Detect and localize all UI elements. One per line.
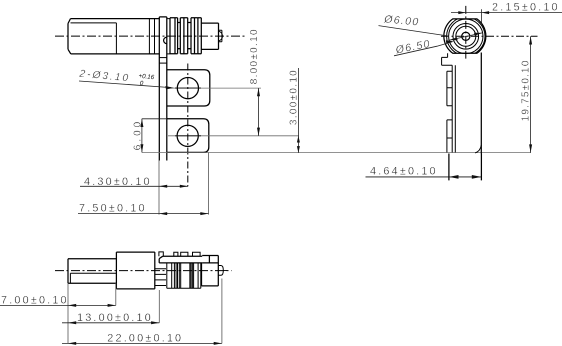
label 2-diam3.10 text bbox=[78, 67, 155, 88]
end view body right edge bbox=[480, 53, 482, 154]
dim 3.00 line bbox=[297, 68, 299, 153]
bottom view plate band bbox=[159, 256, 202, 263]
plate band tooth 1 bbox=[159, 252, 163, 256]
plate band tooth 2 bbox=[174, 252, 178, 256]
dim 7.50 line bbox=[78, 213, 209, 215]
end view center pin bbox=[462, 32, 470, 40]
dim 6.00 arrows bbox=[140, 119, 143, 153]
dim 2.15 right extension bbox=[481, 9, 483, 24]
dim 22.00 line bbox=[62, 342, 222, 344]
plate center arc bbox=[164, 37, 167, 43]
hole 2 bbox=[177, 125, 198, 146]
holes vertical centerline bbox=[187, 64, 189, 187]
plate band tooth 3 bbox=[181, 252, 188, 256]
dim 13.00 arrows bbox=[68, 321, 159, 324]
svg-text:2.15±0.10: 2.15±0.10 bbox=[492, 1, 560, 13]
hole 1 crosshair dark segment bbox=[175, 87, 201, 89]
svg-text:0: 0 bbox=[139, 80, 144, 87]
dim 19.75 arrows bbox=[529, 36, 532, 152]
ring gap 2 bbox=[188, 23, 191, 49]
extension line left (x=68) bbox=[67, 283, 69, 343]
mounting tab 1 bbox=[167, 70, 210, 106]
svg-text:Ø6.00: Ø6.00 bbox=[383, 13, 420, 28]
ring R1 bbox=[170, 18, 178, 54]
svg-text:Ø6.50: Ø6.50 bbox=[394, 38, 432, 57]
bottom view left cylinder inner bbox=[70, 273, 116, 283]
hole 2 horizontal centerline / extension bbox=[168, 135, 299, 137]
rear tip bbox=[219, 30, 223, 42]
dim 19.75 line bbox=[530, 36, 532, 152]
bottom view fins bottom edge bbox=[167, 287, 201, 289]
bottom view right block bbox=[202, 256, 219, 286]
rear barrel bbox=[201, 23, 218, 49]
svg-text:7.00±0.10: 7.00±0.10 bbox=[1, 295, 69, 307]
bottom view big block bbox=[116, 252, 154, 289]
plate rung A bbox=[159, 57, 167, 59]
svg-text:8.00±0.10: 8.00±0.10 bbox=[249, 28, 260, 84]
svg-text:22.00±0.10: 22.00±0.10 bbox=[107, 333, 183, 345]
label 2-diam3.10 leader bbox=[79, 81, 171, 88]
ring R2 bbox=[180, 18, 187, 54]
flange plate edge-on bbox=[159, 17, 167, 161]
label diam 6.00 bbox=[383, 13, 420, 28]
bottom view left cylinder bbox=[68, 259, 116, 283]
plate band tooth 4 bbox=[193, 252, 201, 256]
end view vertical centerline bbox=[465, 6, 467, 59]
end view fillet arc bbox=[475, 145, 481, 153]
plate bottom long extension line bbox=[142, 152, 531, 154]
dim 7.50 arrows bbox=[159, 212, 209, 215]
side view centerline bbox=[55, 35, 247, 37]
dim 4.30 line bbox=[80, 185, 188, 187]
end view body left step bbox=[442, 53, 453, 65]
bottom view fins bbox=[167, 263, 201, 288]
end view bottom barrel bbox=[449, 154, 482, 181]
extension line 13.00 right bbox=[158, 290, 160, 323]
dim 8.00 line bbox=[258, 88, 260, 136]
dim 22.00 arrows bbox=[68, 342, 222, 345]
dim 4.64 arrows bbox=[449, 175, 482, 179]
dim 6.00 line bbox=[142, 119, 167, 153]
end view ear bump 2 bbox=[447, 120, 452, 152]
extension line tab right edge (x=208.5) bbox=[208, 152, 210, 214]
bottom view fins thick pair bbox=[190, 263, 192, 288]
ring section neck bbox=[167, 19, 170, 54]
dim 8.00 arrows bbox=[257, 88, 260, 136]
plate rung B bbox=[159, 62, 167, 64]
end view circle d6.0 bbox=[449, 19, 483, 53]
ring gap 1 bbox=[178, 23, 181, 49]
svg-text:7.50±0.10: 7.50±0.10 bbox=[79, 202, 147, 214]
end view circle inner1 bbox=[453, 24, 479, 50]
extension line 22.00 right bbox=[221, 279, 223, 344]
side view body outline bbox=[68, 19, 159, 54]
end view nut outline bbox=[444, 19, 486, 53]
dim 13.00 line bbox=[62, 322, 159, 324]
end view ear bump 1 bbox=[447, 71, 452, 106]
dim 2.15 line bbox=[451, 12, 562, 14]
svg-text:19.75±0.10: 19.75±0.10 bbox=[520, 59, 531, 121]
dim 2.15 arrows bbox=[458, 11, 489, 14]
dim 3.00 arrows bbox=[297, 136, 300, 153]
mounting tab 2 bbox=[167, 119, 209, 153]
hole 1 bbox=[177, 78, 198, 99]
svg-text:2-Ø3.10: 2-Ø3.10 bbox=[78, 68, 131, 84]
bottom view tip bbox=[218, 266, 223, 276]
ring R3 bbox=[191, 18, 198, 54]
diameter leader line across circle bbox=[449, 33, 482, 40]
side view body inner step bbox=[71, 23, 117, 54]
dim 7.00 arrows bbox=[68, 304, 116, 307]
svg-text:13.00±0.10: 13.00±0.10 bbox=[77, 312, 153, 324]
end view horizontal centerline bbox=[441, 35, 538, 37]
extension line 7.00 right bbox=[115, 283, 117, 305]
dim 4.30 arrows bbox=[159, 185, 188, 188]
dim 4.64 line bbox=[366, 176, 482, 178]
end view plate face bbox=[452, 65, 455, 152]
extension line tab left (x=159) bbox=[158, 161, 160, 215]
side view body face lines bbox=[149, 19, 154, 54]
svg-text:3.00±0.10: 3.00±0.10 bbox=[289, 69, 300, 125]
dim 7.00 line bbox=[0, 304, 116, 306]
svg-text:4.64±0.10: 4.64±0.10 bbox=[370, 166, 438, 178]
bottom view ladder rungs bbox=[155, 269, 166, 286]
end view circle inner2 bbox=[456, 26, 476, 46]
hole 1 horizontal centerline / extension bbox=[168, 87, 261, 89]
bottom view centerline bbox=[55, 270, 232, 272]
hole 2 crosshair dark segment bbox=[175, 135, 201, 137]
svg-text:6.00: 6.00 bbox=[132, 119, 143, 150]
ring R4 bbox=[198, 18, 201, 54]
label diam 6.50 bbox=[394, 38, 432, 57]
svg-text:4.30±0.10: 4.30±0.10 bbox=[84, 176, 152, 188]
bottom view tip stub bbox=[223, 270, 227, 272]
